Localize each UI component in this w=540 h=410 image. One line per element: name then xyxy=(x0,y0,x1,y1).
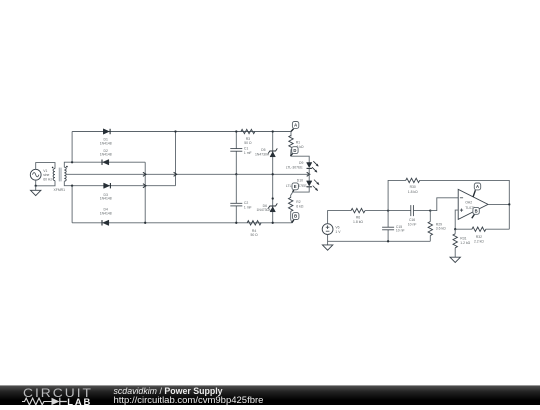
CircuitLab logo LAB text xyxy=(67,396,92,407)
junction secondary-bottom to D4 branch xyxy=(71,185,73,187)
capacitor C15 xyxy=(382,226,394,228)
junction D3-riser at top rail xyxy=(174,130,176,132)
svg-text:1N4148: 1N4148 xyxy=(100,197,112,201)
svg-text:XFMR1: XFMR1 xyxy=(54,188,66,192)
junction zener bottom at bottom rail xyxy=(272,222,274,224)
resistor R2 xyxy=(289,197,293,211)
svg-text:2.2 kΩ: 2.2 kΩ xyxy=(474,239,484,243)
junction C15 at ground rail xyxy=(387,240,389,242)
capacitor C16 xyxy=(410,205,412,216)
transformer XFMR1 primary winding xyxy=(53,169,55,181)
junction D2-drop at bottom rail xyxy=(144,222,146,224)
svg-text:3.6 kΩ: 3.6 kΩ xyxy=(436,227,446,231)
capacitor C2 xyxy=(230,202,242,204)
svg-text:10 nF: 10 nF xyxy=(408,222,417,226)
svg-text:07EE: 07EE xyxy=(298,184,307,188)
svg-text:1N4148: 1N4148 xyxy=(100,211,112,215)
capacitor C1 xyxy=(230,148,242,150)
hop D2-drop over D3 row xyxy=(143,184,146,188)
svg-text:50 Ω: 50 Ω xyxy=(244,141,252,145)
zener diode D5 xyxy=(270,152,275,157)
wire center tap rail xyxy=(66,173,310,175)
resistor R29 xyxy=(429,211,431,222)
junction C1 bottom at center rail xyxy=(235,173,237,175)
svg-text:D9: D9 xyxy=(299,161,303,165)
capacitor C2 branch wire xyxy=(235,174,237,203)
diode D4 xyxy=(103,220,109,225)
wire vertical to top rail xyxy=(71,132,73,163)
svg-text:R2: R2 xyxy=(296,200,300,204)
hop D2-drop over center tap rail xyxy=(143,172,146,176)
junction C2 bottom at bottom rail xyxy=(235,222,237,224)
resistor R30 xyxy=(406,178,420,182)
wire vertical to bottom rail xyxy=(71,186,73,223)
hop center rail end at LED chain xyxy=(307,172,310,176)
ground for R31 xyxy=(450,257,460,262)
resistor R6 xyxy=(351,208,365,212)
LED D10 xyxy=(307,181,312,186)
wire node D to LED D9 xyxy=(291,156,310,162)
svg-text:B: B xyxy=(294,214,297,219)
voltage source V1 xyxy=(30,169,41,180)
transformer XFMR1 secondary winding xyxy=(64,167,66,181)
wire flag A to R1 xyxy=(290,132,292,137)
capacitor C1 branch wire xyxy=(235,132,237,149)
svg-text:1N4730A: 1N4730A xyxy=(257,208,272,212)
resistor R32 xyxy=(472,227,486,231)
diode D2 xyxy=(103,160,109,165)
svg-text:6 kΩ: 6 kΩ xyxy=(296,205,304,209)
svg-text:OA2: OA2 xyxy=(465,200,472,204)
ground for V6 xyxy=(327,241,329,245)
hop D3-riser over center tap rail xyxy=(174,172,177,176)
ground for V1 xyxy=(35,186,37,191)
svg-text:A: A xyxy=(476,184,479,189)
svg-text:1 V: 1 V xyxy=(335,230,341,234)
op-amp power flag B xyxy=(472,214,475,218)
node flag E xyxy=(293,188,295,192)
wire R32 row xyxy=(455,228,472,230)
D10 light arrows xyxy=(314,180,319,185)
svg-text:D10: D10 xyxy=(297,178,303,182)
svg-text:60 Hz: 60 Hz xyxy=(43,177,52,181)
zener branch wire xyxy=(272,132,274,223)
svg-text:1 mF: 1 mF xyxy=(244,151,252,155)
op-amp OA2 xyxy=(458,189,488,219)
svg-text:1.2 kΩ: 1.2 kΩ xyxy=(460,241,470,245)
svg-text:R31: R31 xyxy=(460,236,466,240)
svg-text:E: E xyxy=(294,184,297,189)
svg-text:D: D xyxy=(293,148,296,153)
junction output to feedback xyxy=(508,203,510,205)
wire D9 to D10 xyxy=(308,169,310,182)
diode D1 xyxy=(103,129,109,134)
junction on zener branch xyxy=(272,197,274,199)
XFMR1 core xyxy=(58,168,60,182)
wire V1 bottom to transformer primary xyxy=(35,180,37,186)
junction divider node xyxy=(454,228,456,230)
svg-text:R32: R32 xyxy=(476,235,482,239)
diode D3 xyxy=(104,183,110,188)
junction R6/C15/R30 xyxy=(387,209,389,211)
svg-text:B: B xyxy=(475,209,478,214)
wire secondary bottom terminal row xyxy=(64,181,175,185)
footer url text xyxy=(114,395,264,406)
LED D9 xyxy=(307,163,312,168)
resistor R4 xyxy=(247,221,261,225)
wire R6 to C16 xyxy=(365,210,411,212)
node flag D xyxy=(290,149,292,156)
footer bar xyxy=(0,385,540,405)
wire to op-amp inverting input xyxy=(430,198,458,211)
wire D3 cathode riser to top rail xyxy=(175,132,177,186)
wire op-amp non-inverting input to divider xyxy=(455,210,458,229)
node flag A xyxy=(291,129,294,132)
wire R30 to output vertical xyxy=(420,180,510,229)
wire V1 top to transformer primary xyxy=(36,163,55,170)
junction C16/R29 xyxy=(429,209,431,211)
junction secondary-top to D1 branch xyxy=(71,161,73,163)
zener diode D6 xyxy=(270,207,275,212)
op-amp power flag A xyxy=(473,190,475,197)
wire top positive rail xyxy=(72,131,291,133)
wire D10 to R2 xyxy=(293,187,310,192)
footer title text xyxy=(114,386,223,396)
wire secondary top terminal row xyxy=(64,162,145,167)
svg-text:1.8 kΩ: 1.8 kΩ xyxy=(408,190,418,194)
wire R2 to node B xyxy=(291,211,292,222)
junction C1 top xyxy=(235,130,237,132)
svg-text:LTL-307EE: LTL-307EE xyxy=(286,166,304,170)
svg-text:1N4148: 1N4148 xyxy=(100,141,112,145)
wire C16 to R29 node xyxy=(413,210,430,212)
node flag B xyxy=(292,220,294,223)
junction zener mid at center rail xyxy=(272,173,274,175)
CircuitLab logo resistor-diode-LAB xyxy=(22,397,97,406)
svg-text:D5: D5 xyxy=(261,148,265,152)
svg-text:R1: R1 xyxy=(296,140,300,144)
wire V6 ground rail xyxy=(328,235,431,242)
D9 light arrows xyxy=(313,161,318,166)
XFMR1 secondary phase dot xyxy=(66,166,68,168)
wire bottom negative rail xyxy=(72,222,292,224)
wire op-amp output xyxy=(488,203,509,205)
svg-text:1.8 kΩ: 1.8 kΩ xyxy=(353,220,363,224)
wire V6 top xyxy=(328,211,352,224)
resistor R3 xyxy=(241,129,255,133)
svg-text:R30: R30 xyxy=(410,185,416,189)
junction V1-ground xyxy=(35,185,37,187)
junction zener top xyxy=(272,130,274,132)
voltage source V6 xyxy=(322,224,333,235)
wire C15 branch xyxy=(387,211,389,228)
resistor R1 xyxy=(289,135,293,149)
svg-text:50 Ω: 50 Ω xyxy=(250,233,258,237)
svg-text:1N4148: 1N4148 xyxy=(100,153,112,157)
svg-text:A: A xyxy=(294,123,297,128)
svg-text:10 nF: 10 nF xyxy=(396,229,405,233)
CircuitLab logo CIRCUIT xyxy=(23,386,93,400)
svg-text:1N4730A: 1N4730A xyxy=(255,153,270,157)
wire D2 cathode drop to bottom rail xyxy=(144,162,146,223)
wire R30 feedback row xyxy=(388,180,406,210)
svg-text:1 mF: 1 mF xyxy=(244,205,252,209)
XFMR1 primary phase dot xyxy=(52,167,54,169)
resistor R31 xyxy=(454,229,456,234)
